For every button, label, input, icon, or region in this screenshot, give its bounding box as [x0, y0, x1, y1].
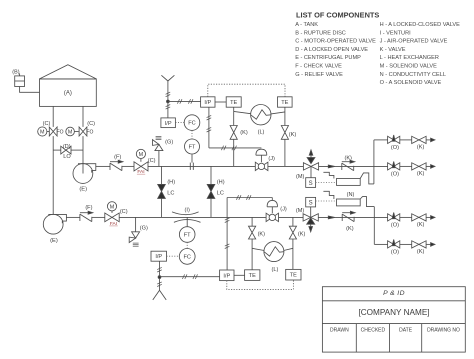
- svg-text:(I): (I): [185, 207, 190, 213]
- svg-text:L - HEAT EXCHANGER: L - HEAT EXCHANGER: [380, 55, 439, 61]
- svg-text:S: S: [309, 200, 313, 206]
- svg-text:[COMPANY NAME]: [COMPANY NAME]: [358, 308, 429, 317]
- svg-text:DATE: DATE: [399, 328, 413, 334]
- svg-text:DRAWN: DRAWN: [330, 328, 349, 334]
- svg-text:(L): (L): [271, 267, 278, 273]
- svg-text:(F): (F): [114, 154, 121, 160]
- svg-text:FT: FT: [184, 233, 191, 239]
- svg-text:(O): (O): [391, 223, 399, 229]
- svg-text:A - TANK: A - TANK: [295, 22, 318, 28]
- svg-text:S: S: [309, 181, 313, 187]
- svg-text:(B): (B): [12, 69, 19, 75]
- svg-text:(K): (K): [346, 226, 354, 232]
- svg-text:C - MOTOR-OPERATED VALVE: C - MOTOR-OPERATED VALVE: [295, 39, 376, 45]
- svg-text:M - SOLENOID VALVE: M - SOLENOID VALVE: [380, 64, 438, 70]
- svg-text:CHECKED: CHECKED: [361, 328, 386, 334]
- svg-text:P & ID: P & ID: [383, 290, 405, 297]
- svg-text:M: M: [40, 130, 45, 136]
- svg-text:(O): (O): [391, 145, 399, 151]
- svg-text:(L): (L): [258, 130, 265, 136]
- svg-text:(H): (H): [167, 179, 175, 185]
- svg-text:LIST OF COMPONENTS: LIST OF COMPONENTS: [296, 11, 379, 20]
- svg-text:M: M: [68, 130, 73, 136]
- svg-text:(N): (N): [347, 192, 355, 198]
- svg-text:I/P: I/P: [204, 100, 211, 106]
- svg-text:(K): (K): [258, 231, 266, 237]
- svg-text:(O): (O): [391, 172, 399, 178]
- svg-text:(H): (H): [217, 179, 225, 185]
- svg-text:(J): (J): [280, 206, 287, 212]
- svg-text:FO: FO: [57, 130, 64, 136]
- svg-text:TE: TE: [290, 273, 297, 279]
- svg-text:(C): (C): [120, 209, 128, 215]
- svg-text:LC: LC: [217, 190, 224, 196]
- svg-text:(M): (M): [296, 208, 305, 214]
- svg-text:TE: TE: [249, 273, 256, 279]
- svg-text:(O): (O): [391, 250, 399, 256]
- svg-text:D - A LOCKED OPEN VALVE: D - A LOCKED OPEN VALVE: [295, 47, 368, 53]
- svg-text:N - CONDUCTIVITY CELL: N - CONDUCTIVITY CELL: [380, 72, 446, 78]
- svg-text:(E): (E): [79, 187, 87, 193]
- svg-text:M: M: [110, 204, 115, 210]
- svg-text:I/P: I/P: [223, 273, 230, 279]
- svg-text:FO: FO: [86, 130, 93, 136]
- svg-text:LC: LC: [167, 190, 174, 196]
- svg-text:B - RUPTURE DISC: B - RUPTURE DISC: [295, 30, 346, 36]
- svg-text:(K): (K): [417, 145, 425, 151]
- svg-text:(K): (K): [417, 249, 425, 255]
- svg-text:J - AIR-OPERATED VALVE: J - AIR-OPERATED VALVE: [380, 39, 448, 45]
- svg-text:FC: FC: [183, 254, 190, 260]
- svg-text:(C): (C): [43, 121, 51, 127]
- svg-text:(G): (G): [165, 139, 173, 145]
- svg-text:(C): (C): [148, 158, 156, 164]
- svg-text:M: M: [139, 152, 144, 158]
- svg-text:(K): (K): [289, 132, 297, 138]
- svg-text:O - A SOLENOID VALVE: O - A SOLENOID VALVE: [380, 80, 442, 86]
- svg-text:F - CHECK VALVE: F - CHECK VALVE: [295, 64, 342, 70]
- svg-text:(D): (D): [63, 144, 71, 150]
- svg-text:(F): (F): [85, 205, 92, 211]
- svg-text:DRAWING NO: DRAWING NO: [427, 328, 460, 334]
- svg-text:TE: TE: [281, 100, 288, 106]
- svg-text:(E): (E): [50, 238, 58, 244]
- svg-text:(G): (G): [140, 225, 148, 231]
- svg-text:I/P: I/P: [165, 121, 172, 127]
- svg-text:TE: TE: [230, 100, 237, 106]
- svg-text:(K): (K): [240, 130, 248, 136]
- svg-text:(K): (K): [298, 231, 306, 237]
- svg-text:E - CENTRIFUGAL PUMP: E - CENTRIFUGAL PUMP: [295, 55, 361, 61]
- svg-text:(J): (J): [268, 156, 275, 162]
- svg-text:I/P: I/P: [155, 254, 162, 260]
- svg-text:K - VALVE: K - VALVE: [380, 47, 406, 53]
- svg-text:G - RELIEF VALVE: G - RELIEF VALVE: [295, 72, 343, 78]
- svg-text:(M): (M): [296, 174, 305, 180]
- svg-text:I - VENTURI: I - VENTURI: [380, 30, 412, 36]
- svg-text:H - A LOCKED-CLOSED VALVE: H - A LOCKED-CLOSED VALVE: [380, 22, 461, 28]
- svg-text:LO: LO: [63, 154, 71, 160]
- svg-text:FC: FC: [188, 121, 195, 127]
- svg-text:(K): (K): [417, 171, 425, 177]
- svg-text:(K): (K): [344, 156, 352, 162]
- svg-text:(C): (C): [87, 121, 95, 127]
- svg-text:(A): (A): [64, 91, 72, 97]
- svg-text:(K): (K): [417, 222, 425, 228]
- svg-text:FT: FT: [189, 145, 196, 151]
